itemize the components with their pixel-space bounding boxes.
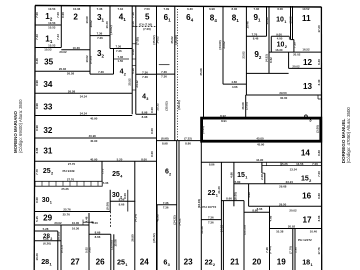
svg-text:7.26: 7.26	[131, 12, 135, 18]
lot 8-1 south line	[223, 83, 247, 85]
svg-text:23: 23	[184, 257, 194, 266]
svg-text:35.08: 35.08	[199, 68, 203, 76]
svg-text:7.00: 7.00	[35, 12, 39, 18]
svg-text:6.00: 6.00	[92, 221, 98, 225]
lot line 21/20	[243, 201, 245, 270]
svg-text:17.20: 17.20	[317, 25, 321, 33]
svg-text:7.36: 7.36	[161, 75, 167, 79]
svg-text:7.20: 7.20	[292, 42, 296, 48]
lot 15-2 west staircase vertical lower	[264, 173, 266, 184]
dashed boundary east of lot 29	[110, 212, 112, 228]
svg-text:25: 25	[117, 257, 125, 266]
svg-text:10.52: 10.52	[302, 7, 310, 11]
svg-text:8.66: 8.66	[95, 235, 101, 239]
lot 15-2 west staircase vertical	[261, 162, 263, 173]
svg-text:(3.08): (3.08)	[245, 102, 249, 110]
svg-text:(6.26): (6.26)	[56, 232, 60, 240]
svg-text:7.36: 7.36	[98, 70, 104, 74]
lot line 3-1/4-1	[109, 6, 111, 49]
lot line 12 west	[288, 52, 290, 68]
lot line 23/22	[200, 141, 202, 270]
svg-text:8.66: 8.66	[257, 207, 263, 211]
svg-text:PH 12272: PH 12272	[298, 238, 312, 242]
svg-text:5.02: 5.02	[88, 247, 92, 253]
svg-text:5.25: 5.25	[35, 216, 39, 222]
svg-text:5.26: 5.26	[43, 237, 49, 241]
svg-text:11: 11	[302, 14, 311, 23]
lot line 13 west stub	[245, 95, 247, 118]
svg-text:5.36: 5.36	[103, 181, 109, 185]
jog	[288, 36, 290, 39]
svg-text:15.26: 15.26	[280, 162, 288, 166]
svg-text:29: 29	[43, 214, 53, 223]
svg-text:24.32: 24.32	[220, 224, 224, 232]
lot 30-2 west line	[109, 190, 111, 212]
lot line 15/16	[234, 183, 322, 185]
svg-text:(9.09): (9.09)	[106, 202, 110, 210]
svg-text:(36.40): (36.40)	[177, 100, 181, 109]
lot line 27/26	[88, 213, 90, 270]
svg-text:31: 31	[43, 147, 53, 156]
lot 27 west line	[60, 225, 62, 270]
svg-text:8.66: 8.66	[317, 215, 321, 221]
svg-text:4.66: 4.66	[231, 80, 237, 84]
svg-text:35: 35	[44, 58, 54, 67]
lot line 5/6-1 long rear line	[156, 6, 158, 270]
svg-text:40.90: 40.90	[90, 116, 98, 120]
svg-text:44.90: 44.90	[256, 158, 264, 162]
svg-text:2: 2	[169, 172, 171, 176]
lot 15-1 west line	[233, 162, 235, 206]
lot line 31/25	[35, 160, 157, 162]
svg-text:27.70: 27.70	[67, 177, 75, 181]
hatched passage band between lots 25 and 30	[35, 181, 102, 186]
svg-text:8.00: 8.00	[141, 157, 147, 161]
lot 30-2 south line	[110, 200, 135, 202]
lot line 1-1/35	[35, 47, 61, 49]
svg-text:(6.15): (6.15)	[60, 245, 64, 253]
svg-text:7.36: 7.36	[163, 206, 169, 210]
block left boundary (Moreno Mariano street line)	[34, 6, 35, 270]
svg-text:7.06: 7.06	[312, 162, 318, 166]
svg-text:20.02: 20.02	[59, 67, 67, 71]
svg-text:8.98: 8.98	[142, 115, 148, 119]
svg-text:8.06: 8.06	[131, 49, 135, 55]
svg-text:6.00: 6.00	[277, 7, 283, 11]
lot line 4-1 east sliver west	[131, 6, 133, 114]
svg-text:8.46: 8.46	[35, 58, 39, 64]
svg-text:(Código: 47050) Altura: 3500: (Código: 47050) Altura: 3500	[346, 107, 351, 164]
lot line 29/27	[35, 224, 89, 226]
svg-text:13: 13	[303, 82, 313, 91]
svg-text:(9.06): (9.06)	[89, 56, 93, 64]
lot 28-2 east line	[57, 231, 59, 270]
svg-text:20.02: 20.02	[292, 64, 300, 68]
svg-text:5.06: 5.06	[131, 21, 135, 27]
notch 13 southeast	[317, 95, 319, 99]
lot 9-2 south line	[246, 72, 288, 74]
svg-text:PH 10772: PH 10772	[202, 205, 216, 209]
svg-text:20.92: 20.92	[288, 225, 296, 229]
lot line 11/12	[269, 51, 321, 53]
svg-text:10.00: 10.00	[72, 221, 80, 225]
svg-text:6.40: 6.40	[317, 59, 321, 65]
lot line sliver east / 5 west	[135, 6, 137, 114]
lot line 19/18 sliver west	[292, 229, 294, 270]
svg-text:16.30: 16.30	[275, 48, 283, 52]
svg-text:(35.02): (35.02)	[165, 101, 169, 110]
lot line 28-2/28-1	[35, 240, 61, 242]
svg-text:29.50: 29.50	[279, 202, 287, 206]
svg-text:10.02: 10.02	[89, 20, 93, 28]
lot line 20/19 and 17 west	[269, 206, 271, 270]
lot 22 east line	[220, 162, 222, 270]
svg-text:(13.02): (13.02)	[109, 25, 113, 34]
svg-text:13.54: 13.54	[290, 168, 298, 172]
svg-text:8.46: 8.46	[253, 37, 259, 41]
svg-text:7.34: 7.34	[117, 7, 123, 11]
tick in passage sliver	[266, 162, 268, 165]
svg-text:8.00: 8.00	[150, 128, 154, 134]
lot 28-2 north line	[35, 230, 58, 232]
lot line 3-1/3-2	[90, 35, 110, 37]
svg-text:40.90: 40.90	[90, 157, 98, 161]
lot 3-2 south line	[90, 73, 114, 75]
svg-text:25.52: 25.52	[127, 78, 131, 86]
dashed PH division lot 5	[136, 26, 157, 28]
svg-text:1.50: 1.50	[117, 59, 123, 63]
svg-text:19: 19	[277, 258, 287, 267]
svg-text:6.30: 6.30	[187, 7, 193, 11]
lot 6-3 west sliver	[156, 205, 158, 270]
svg-text:20.02: 20.02	[293, 53, 301, 57]
svg-text:7.36: 7.36	[163, 201, 169, 205]
svg-text:8.98: 8.98	[142, 110, 148, 114]
svg-text:34: 34	[43, 80, 53, 89]
svg-text:PH 9439: PH 9439	[62, 169, 74, 173]
lot 26 east line	[110, 234, 112, 270]
svg-text:4.66: 4.66	[268, 215, 272, 221]
svg-text:12: 12	[303, 58, 313, 67]
lot 6-1 south line	[157, 73, 175, 75]
svg-text:7.43: 7.43	[56, 34, 60, 40]
svg-text:8.00: 8.00	[123, 193, 127, 199]
lot line 10-2 east	[293, 40, 295, 53]
lot line 22-1/22-2	[201, 219, 221, 221]
svg-text:(24.32): (24.32)	[173, 215, 177, 224]
svg-text:10.53: 10.53	[48, 21, 56, 25]
svg-text:8.86: 8.86	[185, 142, 191, 146]
svg-text:10.53: 10.53	[44, 48, 52, 52]
lot line 33/32	[35, 115, 132, 117]
svg-text:7.00: 7.00	[56, 12, 60, 18]
svg-text:7.43: 7.43	[35, 34, 39, 40]
svg-text:(4.14): (4.14)	[134, 214, 138, 222]
svg-text:8.00: 8.00	[150, 107, 154, 113]
svg-text:22: 22	[208, 190, 216, 197]
svg-text:7.70: 7.70	[101, 168, 105, 174]
lot line 16/17	[249, 205, 322, 207]
svg-text:5.20: 5.20	[117, 157, 123, 161]
svg-text:15.80: 15.80	[233, 180, 241, 184]
lot 6-2/6-3 east line	[176, 141, 178, 270]
svg-text:21.36: 21.36	[200, 226, 204, 234]
svg-text:3: 3	[146, 97, 148, 101]
svg-text:10.52: 10.52	[289, 16, 293, 24]
jog 10-2 northeast	[291, 39, 294, 41]
svg-text:4.00: 4.00	[277, 37, 283, 41]
svg-text:(Código: 69400) Altura: 3500: (Código: 69400) Altura: 3500	[18, 99, 23, 153]
lot 21 west sliver	[222, 201, 224, 270]
svg-text:29.68: 29.68	[279, 184, 287, 188]
svg-text:4.66: 4.66	[247, 192, 251, 198]
svg-text:25.36: 25.36	[61, 187, 69, 191]
svg-text:45.90: 45.90	[257, 142, 265, 146]
svg-text:24.52: 24.52	[177, 218, 181, 226]
svg-text:8.98: 8.98	[35, 147, 39, 153]
svg-text:8.92: 8.92	[220, 114, 226, 118]
lot line 3-2 east	[113, 49, 115, 75]
tiny arrow annotation near lot 29	[83, 221, 94, 223]
svg-text:24.12: 24.12	[135, 80, 139, 88]
lot 21 north line	[221, 200, 244, 202]
svg-text:2: 2	[51, 172, 53, 176]
svg-text:45.00: 45.00	[256, 137, 264, 141]
svg-text:7.36: 7.36	[97, 7, 103, 11]
svg-text:(3.60): (3.60)	[201, 126, 205, 134]
svg-text:20.02: 20.02	[54, 221, 62, 225]
svg-text:(6.26): (6.26)	[43, 242, 51, 246]
svg-text:4.66: 4.66	[232, 85, 238, 89]
lot 25-1 west line	[113, 234, 115, 270]
lot 23 west line	[178, 141, 180, 270]
svg-text:23.24: 23.24	[286, 180, 294, 184]
svg-text:(21.56): (21.56)	[242, 225, 246, 234]
svg-text:21.30: 21.30	[217, 186, 221, 194]
svg-text:7.36: 7.36	[253, 7, 259, 11]
lot 13 south line	[246, 94, 322, 96]
lot 14 south line	[201, 161, 321, 163]
svg-text:8.88: 8.88	[317, 193, 321, 199]
svg-text:8.40: 8.40	[317, 79, 321, 85]
svg-text:9: 9	[304, 112, 308, 121]
lot line 8-1/9	[245, 6, 247, 95]
lot 10-1 south notch	[271, 35, 289, 37]
svg-text:14: 14	[301, 149, 311, 158]
svg-text:(8.98): (8.98)	[161, 137, 169, 141]
svg-text:8.98: 8.98	[35, 103, 39, 109]
lot line 10-2 west	[270, 36, 272, 52]
block top boundary (street line)	[35, 6, 322, 8]
lot line 6-2/6-3	[157, 204, 177, 206]
lot line 10-1 east sliver west	[290, 6, 292, 40]
svg-text:23.02: 23.02	[242, 51, 246, 59]
svg-text:15.06: 15.06	[113, 239, 117, 247]
lot line sliver east / 10 west	[268, 6, 270, 73]
svg-text:8.98: 8.98	[35, 80, 39, 86]
svg-text:25: 25	[43, 168, 51, 175]
svg-text:13.56: 13.56	[296, 162, 304, 166]
selected parcel 9-3 thick outline	[202, 118, 321, 141]
svg-text:26.80: 26.80	[130, 234, 134, 242]
lot line 30-1/29	[35, 211, 110, 213]
lot line 2/3	[89, 6, 91, 74]
svg-text:8.66: 8.66	[95, 230, 101, 234]
svg-text:16: 16	[302, 192, 312, 201]
lot line 9-1/9-2	[246, 35, 266, 37]
lot line 19/18 sliver east	[294, 229, 296, 270]
narrow passage sliver south line (15 row)	[262, 165, 322, 167]
svg-text:8.86: 8.86	[209, 163, 215, 167]
svg-text:2: 2	[124, 72, 126, 76]
svg-text:(7.00): (7.00)	[143, 27, 151, 31]
svg-text:8.91: 8.91	[221, 119, 227, 123]
lot line 4-1/4-2	[110, 48, 132, 50]
svg-text:24: 24	[140, 257, 150, 266]
svg-text:5.26: 5.26	[131, 68, 135, 74]
svg-text:7.36: 7.36	[161, 70, 167, 74]
svg-text:40.90: 40.90	[89, 134, 97, 138]
svg-text:8.88: 8.88	[317, 150, 321, 156]
notch line lot 4-2	[114, 58, 130, 60]
svg-text:18: 18	[302, 258, 310, 267]
svg-text:(35.08): (35.08)	[174, 35, 178, 44]
svg-text:8.66: 8.66	[119, 202, 125, 206]
svg-text:10.53: 10.53	[48, 26, 56, 30]
svg-text:34.34: 34.34	[80, 94, 88, 98]
svg-text:28: 28	[41, 257, 49, 266]
mid-block line	[157, 140, 202, 142]
lot line 34/33	[35, 92, 132, 94]
svg-text:7.36: 7.36	[142, 75, 148, 79]
svg-text:8.98: 8.98	[35, 125, 39, 131]
svg-text:32: 32	[43, 126, 53, 135]
svg-text:7.70: 7.70	[35, 169, 39, 175]
svg-text:4.66: 4.66	[230, 172, 234, 178]
svg-text:15: 15	[237, 172, 245, 179]
lot 4-3 south line	[136, 113, 157, 115]
lot line 35/34	[35, 70, 90, 72]
svg-text:7.00: 7.00	[317, 171, 321, 177]
svg-text:20.02: 20.02	[289, 208, 297, 212]
svg-text:30: 30	[42, 197, 50, 204]
svg-text:26: 26	[96, 257, 106, 266]
svg-text:8.06: 8.06	[231, 7, 237, 11]
svg-text:16.36: 16.36	[72, 227, 80, 231]
svg-text:8.98: 8.98	[162, 142, 168, 146]
lot line 32/31	[35, 137, 157, 139]
svg-text:6.98: 6.98	[209, 7, 215, 11]
svg-text:10.38: 10.38	[276, 230, 284, 234]
lot line 1-2/1-1	[35, 24, 61, 26]
lot 25-2 east line	[101, 161, 103, 181]
svg-text:7.36: 7.36	[116, 49, 122, 53]
svg-text:2: 2	[50, 237, 52, 241]
svg-text:17.76: 17.76	[317, 247, 321, 255]
svg-text:4.46: 4.46	[85, 216, 89, 222]
svg-text:5.28: 5.28	[43, 227, 49, 231]
svg-text:10.46: 10.46	[310, 230, 318, 234]
svg-text:27.70: 27.70	[68, 162, 76, 166]
svg-text:25.76: 25.76	[63, 208, 71, 212]
svg-text:7.36: 7.36	[208, 220, 214, 224]
svg-text:7.36: 7.36	[208, 216, 214, 220]
svg-text:(7.50): (7.50)	[268, 246, 272, 254]
svg-text:17: 17	[302, 215, 312, 224]
svg-text:21: 21	[230, 257, 240, 266]
svg-text:8.66: 8.66	[226, 197, 232, 201]
svg-text:22: 22	[205, 257, 213, 266]
svg-text:26.58: 26.58	[68, 89, 76, 93]
cell line west of 16	[248, 184, 250, 207]
svg-text:5: 5	[145, 13, 150, 22]
svg-text:10.53: 10.53	[48, 7, 56, 11]
svg-text:9.09: 9.09	[61, 12, 65, 18]
svg-text:34.02: 34.02	[156, 36, 160, 44]
lot line 8-4/8-1	[222, 6, 224, 84]
svg-text:(7.08): (7.08)	[136, 37, 140, 45]
lot 15-2 west staircase jog	[262, 172, 265, 174]
svg-text:2: 2	[285, 45, 287, 49]
svg-text:6.52: 6.52	[269, 57, 273, 63]
svg-text:(3.00): (3.00)	[316, 125, 320, 133]
svg-text:(6.00): (6.00)	[234, 192, 238, 200]
lot line 17/18	[270, 228, 322, 230]
lot 4-3 north line	[136, 73, 157, 75]
svg-text:7.36: 7.36	[142, 70, 148, 74]
svg-text:15: 15	[301, 175, 309, 182]
svg-text:40.90: 40.90	[90, 139, 98, 143]
svg-text:2.08: 2.08	[260, 174, 264, 180]
tick in passage sliver	[280, 162, 282, 165]
lot line 6-4/8-4	[203, 6, 205, 118]
svg-text:42.98: 42.98	[156, 214, 160, 222]
svg-text:29.50: 29.50	[279, 91, 287, 95]
svg-text:10: 10	[276, 16, 284, 23]
svg-text:10.36: 10.36	[73, 46, 81, 50]
svg-text:16.52: 16.52	[302, 48, 310, 52]
svg-text:7.50: 7.50	[144, 7, 150, 11]
svg-text:1.98: 1.98	[294, 247, 298, 253]
svg-text:(7.32): (7.32)	[184, 137, 192, 141]
svg-text:8.00: 8.00	[150, 151, 154, 157]
svg-text:27: 27	[71, 257, 81, 266]
svg-text:30.00: 30.00	[280, 96, 288, 100]
svg-text:25.32: 25.32	[155, 103, 159, 111]
svg-text:(25.32): (25.32)	[152, 233, 156, 242]
lot 26 north line	[89, 233, 111, 235]
lot line 12/13	[289, 67, 322, 69]
lot line 6-1 east	[174, 6, 176, 141]
lot 30-2 east line	[127, 190, 129, 212]
svg-text:10.30: 10.30	[35, 253, 39, 261]
svg-text:25: 25	[112, 171, 120, 178]
tick marks inside narrow sliver lot	[132, 26, 136, 28]
svg-text:33: 33	[43, 102, 53, 111]
notch 13 southeast line	[318, 98, 321, 100]
lot line 2/35	[61, 49, 90, 51]
svg-text:2: 2	[73, 12, 78, 21]
svg-text:2: 2	[309, 179, 311, 183]
lot line sliver east / 11 west	[292, 6, 294, 40]
svg-text:10.36: 10.36	[73, 7, 81, 11]
svg-text:20: 20	[252, 258, 262, 267]
svg-text:10.46: 10.46	[265, 17, 269, 25]
lot line 9-1 east sliver west	[266, 6, 268, 36]
svg-text:20.02: 20.02	[59, 50, 67, 54]
svg-text:9.09: 9.09	[35, 197, 39, 203]
svg-text:26.58: 26.58	[67, 71, 75, 75]
